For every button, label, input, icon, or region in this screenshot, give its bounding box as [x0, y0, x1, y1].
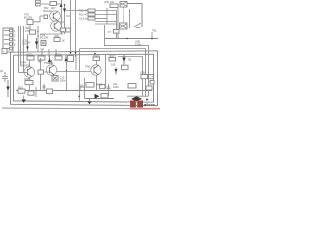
- svg-text:100n: 100n: [113, 85, 119, 89]
- svg-text:1R: 1R: [80, 83, 83, 87]
- svg-text:25V: 25V: [26, 41, 31, 45]
- svg-text:(R9): (R9): [54, 34, 59, 38]
- svg-text:C6 10u: C6 10u: [79, 17, 88, 21]
- svg-text:4K7: 4K7: [51, 6, 56, 10]
- svg-text:C7: C7: [108, 30, 112, 34]
- svg-text:D1: D1: [67, 14, 71, 18]
- svg-text:D3: D3: [128, 58, 132, 62]
- svg-text:100n: 100n: [135, 42, 141, 46]
- svg-text:(R16): (R16): [93, 54, 100, 58]
- svg-text:TR5 2N: TR5 2N: [44, 61, 53, 65]
- svg-text:BC109: BC109: [44, 9, 52, 13]
- svg-text:(R17): (R17): [109, 54, 116, 58]
- svg-text:(C9): (C9): [140, 71, 145, 75]
- svg-text:100: 100: [111, 63, 116, 67]
- svg-text:(R18): (R18): [96, 83, 103, 87]
- svg-text:1K: 1K: [62, 39, 65, 43]
- svg-text:2N3053: 2N3053: [21, 63, 31, 67]
- svg-text:TEL: TEL: [152, 29, 157, 33]
- svg-text:C4: C4: [41, 47, 45, 51]
- svg-text:接: 接: [131, 100, 137, 108]
- svg-text:R20: R20: [18, 85, 23, 89]
- svg-text:◆Pnnn: ◆Pnnn: [143, 103, 155, 107]
- svg-text:BC109: BC109: [24, 15, 32, 19]
- svg-text:BC109: BC109: [40, 35, 48, 39]
- svg-text:(R14): (R14): [55, 53, 62, 57]
- svg-text:TR6: TR6: [85, 65, 90, 69]
- svg-text:(R15): (R15): [24, 77, 31, 81]
- svg-text:(C5) 10u: (C5) 10u: [104, 0, 115, 4]
- svg-text:100u: 100u: [60, 78, 66, 82]
- svg-text:(R12): (R12): [26, 53, 33, 57]
